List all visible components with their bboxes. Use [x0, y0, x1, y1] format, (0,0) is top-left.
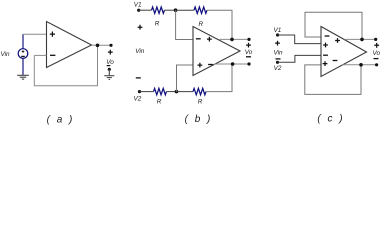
- junction top output: [360, 38, 364, 42]
- terminal Vo-: [247, 62, 250, 65]
- label +: [108, 50, 113, 55]
- terminal Vo+: [109, 44, 112, 47]
- op-amp U1: [47, 22, 92, 68]
- svg-text:R: R: [198, 21, 203, 28]
- terminal Vo-: [375, 63, 378, 66]
- svg-text:V1: V1: [273, 27, 281, 34]
- voltage source Vin: [18, 49, 28, 59]
- svg-text:Vo: Vo: [106, 59, 114, 66]
- junction top output: [230, 38, 234, 42]
- resistor R3: [154, 88, 167, 94]
- wire J1 to inverting input: [176, 10, 193, 39]
- resistor R1: [152, 7, 165, 13]
- wire output top: [345, 38, 376, 40]
- wire feedback bottom: [206, 64, 232, 92]
- wire: [177, 91, 194, 93]
- svg-text:V2: V2: [274, 65, 282, 72]
- label - input column: [276, 58, 281, 60]
- svg-text:R: R: [198, 98, 203, 105]
- label + input column: [275, 41, 280, 46]
- svg-text:R: R: [155, 20, 160, 27]
- output wire: [92, 44, 112, 46]
- svg-text:( c ): ( c ): [317, 113, 344, 124]
- terminal V2: [276, 61, 279, 64]
- terminal V2: [138, 90, 141, 93]
- ground: [17, 75, 29, 79]
- label + input column: [138, 25, 143, 30]
- svg-text:Vin: Vin: [135, 48, 145, 55]
- label - output: [374, 58, 379, 60]
- terminal Vo+: [247, 38, 250, 41]
- wire: [139, 9, 152, 11]
- wire: [176, 9, 194, 11]
- wire: [23, 33, 47, 35]
- svg-text:( a ): ( a ): [47, 115, 75, 126]
- terminal Vo+: [374, 38, 377, 41]
- junction output node: [96, 44, 100, 48]
- wire source top to op-amp + input: [22, 34, 24, 49]
- wire source bottom to ground: [22, 58, 24, 75]
- wire output bottom: [214, 63, 249, 65]
- wire V2 to input pin3: [278, 55, 322, 62]
- wire: [140, 91, 154, 93]
- junction node J2: [175, 90, 179, 94]
- junction node J1: [174, 8, 178, 12]
- terminal Vo- node: [108, 68, 111, 71]
- resistor R4: [193, 88, 206, 94]
- feedback wire: [34, 45, 97, 86]
- label minus: [107, 65, 111, 67]
- svg-text:R: R: [157, 98, 162, 105]
- wire feedback top: [207, 10, 232, 39]
- wire: [167, 91, 177, 93]
- svg-text:Vin: Vin: [273, 50, 283, 57]
- ground output: [104, 69, 114, 79]
- op-amp U3 fully differential two input pairs: [321, 27, 367, 77]
- junction bottom output: [359, 63, 363, 67]
- svg-text:V1: V1: [134, 1, 142, 8]
- label + output: [246, 43, 251, 48]
- wire output bottom: [342, 64, 376, 66]
- terminal V1: [276, 33, 279, 36]
- resistor R2: [194, 7, 207, 13]
- wire J2 to noninverting input: [177, 65, 194, 92]
- label + output: [374, 43, 379, 48]
- label - output: [246, 56, 251, 58]
- junction bottom output: [231, 62, 235, 66]
- svg-text:V2: V2: [133, 95, 141, 102]
- svg-text:( b ): ( b ): [185, 114, 213, 125]
- terminal V1: [137, 9, 140, 12]
- wire inverting input: [34, 54, 46, 56]
- wire feedback bottom rail: [305, 65, 361, 95]
- op-amp U2 fully differential: [193, 27, 240, 76]
- wire feedback top rail: [305, 12, 362, 39]
- svg-text:Vo: Vo: [245, 49, 253, 56]
- label - input column: [136, 77, 141, 79]
- wire V1 to input pin2: [278, 35, 321, 44]
- svg-text:Vin: Vin: [0, 51, 10, 58]
- wire: [165, 9, 176, 11]
- svg-text:Vo: Vo: [373, 50, 381, 57]
- wire output top: [220, 38, 250, 40]
